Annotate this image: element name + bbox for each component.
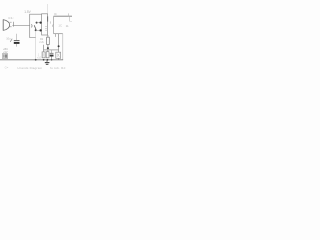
IC2 box top edge <box>54 15 72 17</box>
pin stub between ICs <box>50 21 52 23</box>
svg-text:Lhands Diagram: Lhands Diagram <box>18 66 43 70</box>
microphone MIC1 <box>3 19 9 30</box>
IC2 right pin tick <box>69 16 71 21</box>
IC1 box <box>42 14 48 35</box>
output wire down <box>58 34 60 53</box>
wire to lower pin <box>36 29 42 31</box>
capacitor C4 box <box>42 52 45 58</box>
IC2 right pin wire <box>70 20 72 22</box>
wire node down to rail <box>35 31 37 60</box>
svg-text:IC: IC <box>54 12 57 16</box>
wire above IC1 <box>47 4 49 14</box>
capacitor C2 curved plate <box>30 24 33 27</box>
IC2 stub pin lower-left <box>55 34 57 37</box>
wire IC2 corner down to rail <box>62 34 64 60</box>
rail junction dots <box>35 59 37 61</box>
mid horizontal wire <box>43 49 59 51</box>
svg-text:10u: 10u <box>6 36 11 40</box>
svg-text:1C: 1C <box>58 23 62 27</box>
wire corner to branch <box>29 37 35 39</box>
IC1 right edge dark segment <box>47 16 49 21</box>
bottom ground rail <box>0 59 63 61</box>
IC2 pin tick above <box>68 13 70 16</box>
C3 plus mark <box>10 39 12 42</box>
IC2 box left edge <box>53 16 55 34</box>
node dot lower <box>35 29 37 31</box>
capacitor C5 electrolytic <box>50 50 54 60</box>
speaker lead bottom <box>58 58 60 60</box>
IC1 interior marks <box>45 26 47 30</box>
wire top rail to IC1 <box>29 13 41 15</box>
capacitor C3 electrolytic <box>14 34 20 47</box>
svg-text:C=: C= <box>5 65 9 69</box>
svg-text:fu tub. Rd: fu tub. Rd <box>50 66 66 70</box>
C4 interior marks <box>42 53 44 56</box>
battery B1 <box>2 54 7 59</box>
ground symbol <box>45 60 50 65</box>
wire mic to node <box>12 24 30 26</box>
svg-text:2.2k: 2.2k <box>39 41 44 44</box>
resistor R3 box <box>46 52 49 58</box>
IC1 pin dot upper <box>40 22 42 24</box>
wire left branch down <box>43 45 45 52</box>
IC1 pin dot lower <box>40 29 42 31</box>
mic terminal marks <box>10 22 12 27</box>
resistor R2 <box>47 35 50 52</box>
speaker LS1 box <box>56 52 61 58</box>
IC2 left edge hook <box>52 25 53 27</box>
speaker interior marks <box>57 54 59 57</box>
svg-text:11: 11 <box>66 24 69 28</box>
svg-text:C1:: C1: <box>8 16 14 20</box>
IC2 box bottom edge <box>54 33 63 35</box>
svg-text:+10: +10 <box>37 57 42 60</box>
transistor Q1 collector dot <box>36 22 38 24</box>
junction dot on output wire <box>58 45 60 47</box>
svg-text:1.5V: 1.5V <box>24 10 31 14</box>
wire collector to pin <box>37 22 42 24</box>
transistor Q1 emitter diagonal <box>34 25 36 29</box>
battery internal bars <box>4 54 7 58</box>
junction dot on R2 lead <box>47 47 49 49</box>
capacitor C1 plate tick <box>13 22 15 27</box>
wire node up <box>29 14 31 37</box>
